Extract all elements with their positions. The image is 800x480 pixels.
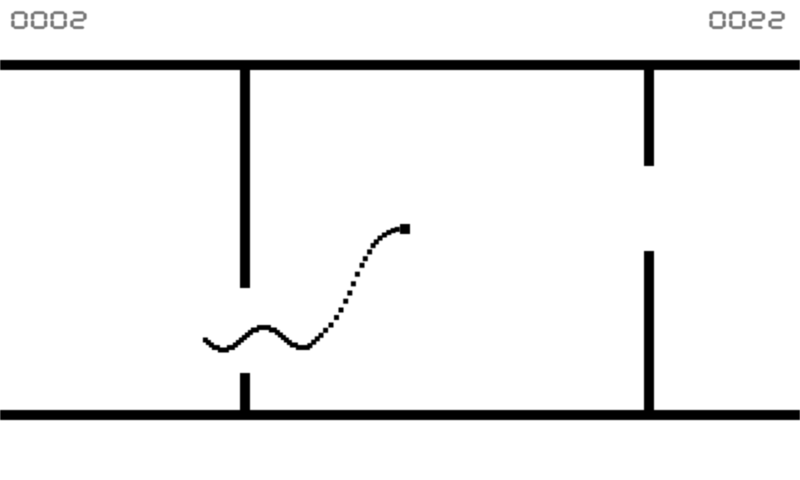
wall 2 lower segment xyxy=(644,251,654,410)
score right 0022 xyxy=(709,11,784,29)
wall 1 upper segment xyxy=(240,70,250,288)
score left 0002 xyxy=(11,11,86,29)
bottom wall bar xyxy=(0,410,800,420)
wall 1 lower segment xyxy=(240,373,250,410)
worm head xyxy=(400,224,410,234)
top wall bar xyxy=(0,60,800,70)
worm dotted trail xyxy=(307,227,399,348)
worm body wave xyxy=(203,325,310,353)
wall 2 upper segment xyxy=(644,70,654,166)
